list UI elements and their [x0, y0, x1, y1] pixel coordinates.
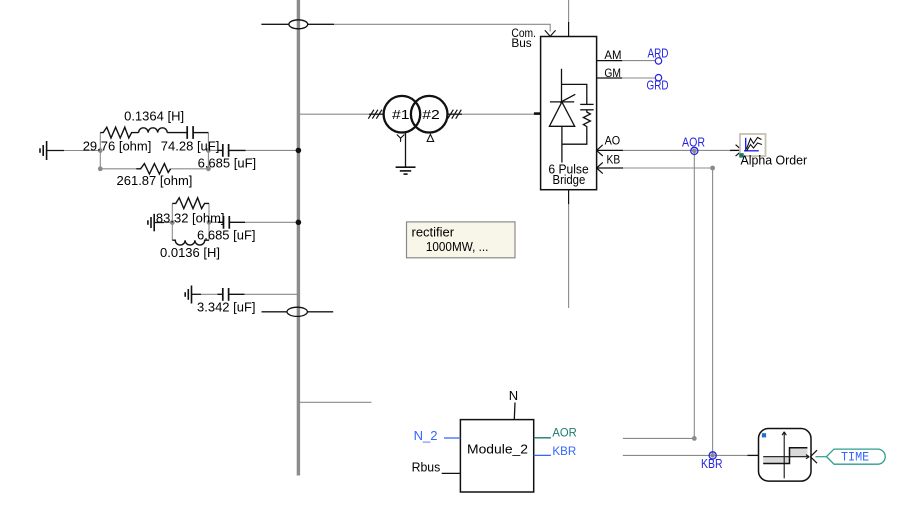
svg-text:AO: AO: [605, 134, 621, 148]
arrow into step block (TIME): [810, 450, 817, 463]
wire AOR horizontal to module: [623, 437, 695, 439]
node circle GRD: [655, 75, 661, 81]
wire DC line top: [568, 0, 570, 23]
filter2 rails: [171, 203, 173, 240]
wire filter1 mid to capacitor: [208, 149, 217, 151]
wire G1 to filter1: [64, 150, 100, 152]
svg-text:KBR: KBR: [552, 444, 576, 458]
step axes: [763, 432, 809, 479]
label Y: [397, 135, 405, 142]
wire G3 lead: [192, 293, 202, 295]
svg-text:74.28 [uF]: 74.28 [uF]: [161, 138, 220, 153]
capacitor C2 6.685 uF (filter1 series): [222, 144, 224, 157]
capacitor C1 74.28 uF (filter1 top): [167, 132, 187, 134]
svg-text:261.87 [ohm]: 261.87 [ohm]: [117, 173, 193, 188]
step curve: [763, 448, 807, 464]
ground G3 (filter 3): [185, 286, 191, 304]
svg-text:Alpha Order: Alpha Order: [741, 153, 808, 167]
svg-text:Rbus: Rbus: [412, 459, 441, 474]
wire bus stub lower: [300, 401, 371, 403]
wire AOR vertical run: [693, 151, 695, 439]
svg-text:#2: #2: [422, 107, 440, 122]
bridge AC port tick: [534, 112, 541, 115]
svg-text:0.0136 [H]: 0.0136 [H]: [160, 245, 220, 260]
svg-text:Module_2: Module_2: [467, 442, 528, 457]
svg-text:N: N: [509, 388, 518, 403]
svg-text:6.685 [uF]: 6.685 [uF]: [198, 156, 257, 171]
wire transformer to bridge: [448, 113, 462, 115]
resistor R3 83.32 ohm (filter2 top): [172, 198, 209, 209]
port AO wire with arrow: [597, 145, 603, 156]
breaker ellipse bottom: [287, 307, 307, 316]
node dot bus-filter2: [296, 220, 302, 226]
wire DC line bottom: [568, 190, 570, 205]
wire filter2 mid to capacitor: [209, 221, 218, 223]
ground G4 (transformer neutral): [396, 167, 416, 174]
data tag TIME: [827, 449, 886, 464]
port KB wire with arrow: [597, 162, 603, 173]
wire (top left of breaker): [261, 23, 289, 25]
svg-text:#1: #1: [392, 107, 410, 122]
wire AOR stub: [534, 437, 551, 439]
svg-text:N_2: N_2: [414, 428, 438, 443]
op block 6 Pulse Bridge U1: [541, 37, 597, 190]
inductor L1 0.1364 H (filter1 top): [139, 128, 168, 133]
resistor R1 29.76 ohm (filter1 top): [100, 127, 138, 138]
rectifier annotation box: [407, 222, 516, 258]
wire ground G1 lead: [47, 150, 64, 152]
node AOR (ring): [692, 149, 697, 154]
svg-text:29.76 [ohm]: 29.76 [ohm]: [83, 138, 152, 153]
wire C4 to bus: [245, 293, 299, 295]
breaker ellipse top: [289, 20, 308, 29]
ground G1 (filter 1): [40, 141, 47, 160]
node dot KB corner: [710, 166, 715, 171]
node dots filter1: [98, 148, 103, 153]
wire Rbus stub: [442, 472, 461, 474]
port AM wire: [597, 60, 623, 62]
thyristor V1 (bridge icon): [549, 69, 575, 163]
wire G2 lead: [154, 222, 164, 224]
wire right of bottom breaker: [307, 311, 333, 313]
wire C2 to bus: [246, 149, 299, 151]
arrow into Alpha Order: [730, 149, 742, 151]
wire N_2 stub: [444, 437, 460, 439]
hash marks right (transformer): [448, 110, 462, 119]
transformer T1 winding #1: [384, 96, 421, 133]
wire transformer neutral: [405, 132, 407, 168]
label delta: [427, 134, 434, 141]
inductor L2 0.0136 H (filter2 bottom): [172, 240, 209, 245]
svg-text:83.32 [ohm]: 83.32 [ohm]: [156, 211, 225, 226]
block Alpha Order (plot icon): [739, 134, 765, 158]
svg-text:6.685 [uF]: 6.685 [uF]: [197, 227, 256, 242]
ground G2 (filter 2): [148, 214, 154, 232]
node dot bus-filter1: [296, 148, 302, 154]
svg-text:Bridge: Bridge: [553, 173, 586, 187]
blue square marker: [762, 433, 766, 437]
step shading low: [763, 457, 789, 463]
wire KBR horizontal run: [623, 454, 748, 456]
svg-text:KBR: KBR: [701, 457, 723, 471]
wire filter1 bottom leads: [100, 168, 136, 170]
svg-text:0.1364 [H]: 0.1364 [H]: [124, 108, 184, 123]
hash marks left (transformer): [368, 110, 382, 119]
resistor R2 261.87 ohm (filter1 bottom): [136, 164, 170, 174]
block Module_2: [460, 420, 533, 492]
svg-text:KB: KB: [607, 153, 621, 167]
wire TIME tag to block: [816, 456, 827, 458]
wire KBR stub: [534, 454, 551, 456]
wire KB vertical run: [712, 168, 714, 455]
port GM wire: [597, 77, 623, 79]
step shading high: [790, 448, 808, 457]
svg-text:AOR: AOR: [552, 426, 577, 440]
svg-text:GM: GM: [604, 66, 621, 80]
filter1 left rail: [99, 133, 101, 169]
svg-text:AOR: AOR: [682, 136, 705, 150]
svg-text:rectifier: rectifier: [412, 225, 455, 240]
node dots filter2: [170, 220, 175, 225]
capacitor C3 6.685 uF (filter2): [223, 216, 225, 229]
snubber RC (bridge icon): [562, 84, 594, 144]
node dot AOR corner: [692, 436, 697, 441]
bus B1 (main AC busbar): [297, 0, 300, 476]
svg-text:3.342 [uF]: 3.342 [uF]: [197, 299, 256, 314]
svg-text:1000MW, ...: 1000MW, ...: [426, 240, 489, 254]
node circle ARD: [655, 58, 661, 64]
wire (breaker to Com.Bus corner): [308, 23, 334, 25]
svg-text:AM: AM: [604, 48, 621, 62]
transformer T1 winding #2: [411, 96, 448, 133]
node KBR (ring): [710, 453, 715, 458]
block step/signal source: [759, 429, 812, 482]
svg-text:GRD: GRD: [647, 79, 669, 93]
arrow into bridge top (Com.Bus): [545, 30, 556, 36]
capacitor C4 3.342 uF: [222, 288, 224, 301]
wire N to module: [513, 403, 516, 420]
svg-text:TIME: TIME: [841, 450, 869, 464]
svg-text:Bus: Bus: [511, 38, 532, 50]
wire C3 to bus: [245, 221, 298, 223]
wire bus to transformer: [300, 113, 369, 115]
wire left of bottom breaker: [262, 311, 288, 313]
svg-text:ARD: ARD: [648, 46, 669, 60]
filter1 right rail: [207, 133, 209, 169]
